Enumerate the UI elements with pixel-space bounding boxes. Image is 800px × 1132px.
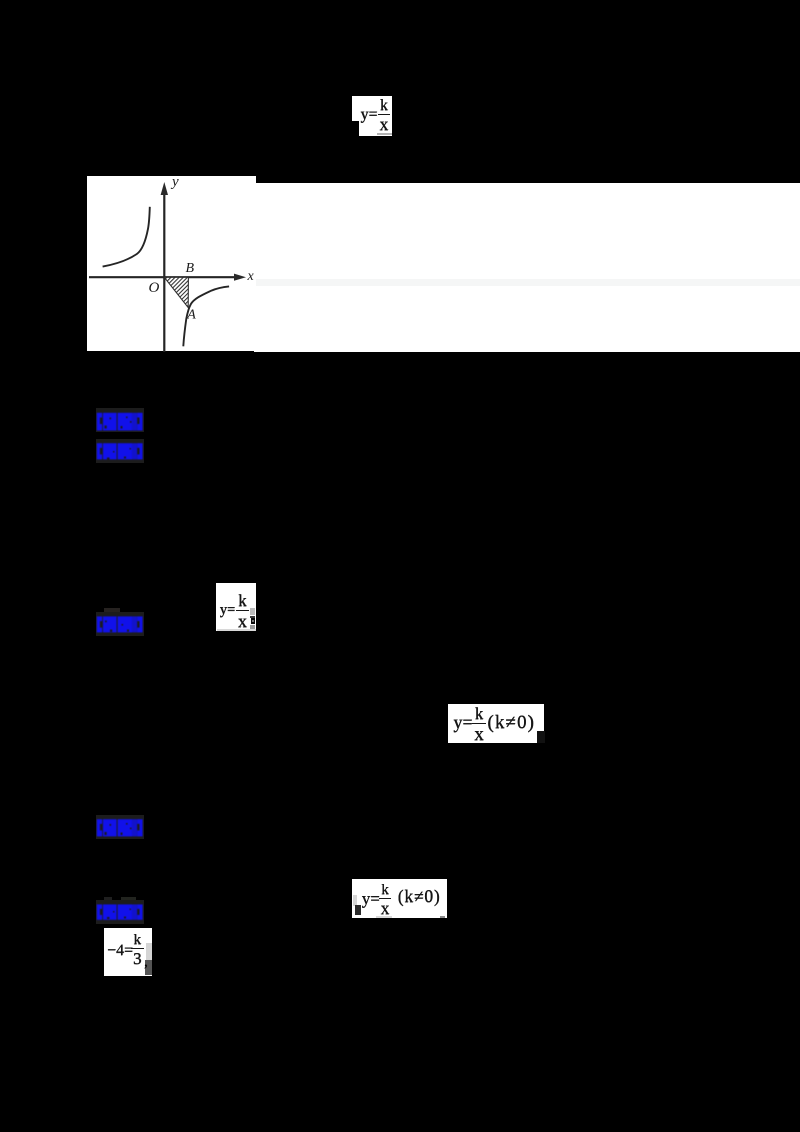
svg-text:O: O [149,279,160,295]
x-axis [89,276,237,278]
formula 4: y=k/x(k≠0) [352,879,447,918]
formula 5: -4=k/3 [104,928,152,976]
hyperbola lower-right branch [183,286,229,346]
svg-text:y: y [170,176,179,190]
label 【分析】 #2 [96,815,144,839]
formula 2: y=k/x (middle) [216,583,256,631]
label 【点评】 [96,612,144,636]
dark tab above 点评 [104,608,120,616]
faint gray line in band [254,279,800,286]
shaded triangle OBA [164,277,188,307]
white paragraph band right of graph [254,183,800,352]
svg-text:A: A [186,307,196,322]
y-axis [163,192,165,352]
tabs above 解答 #2 [104,897,112,904]
graph figure box [87,176,256,352]
svg-text:B: B [186,261,195,276]
hyperbola upper-left branch [103,206,150,266]
svg-text:x: x [247,268,255,283]
label 【分析】 #1 [96,408,144,432]
formula 1: y=k/x (top) [352,96,392,136]
label 【解答】 #1 [96,439,144,463]
formula 3: y=k/x (k≠0) big [448,704,544,744]
label 【解答】 #2 [96,900,144,924]
